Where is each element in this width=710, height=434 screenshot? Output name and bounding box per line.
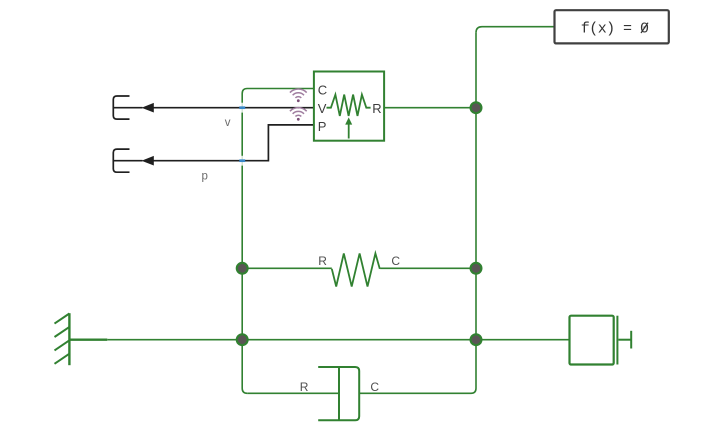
faint green ghost at crossing v [241, 103, 243, 113]
signal wire p: sensor P port left, down, to terminator arrow [154, 125, 315, 161]
damper port label C [370, 380, 379, 394]
sensor internal potentiometer zigzag [327, 95, 371, 116]
slash through zero of solver block [641, 23, 648, 33]
mass block stub and end tick [619, 331, 632, 349]
mass block body [570, 316, 614, 365]
wifi badge on V signal [290, 108, 307, 117]
spring port label C [391, 254, 400, 268]
spring port label R [318, 254, 327, 268]
svg-text:C: C [318, 82, 327, 97]
mechanical reference ground bar [68, 313, 70, 365]
junction dot: spring left / left bus [237, 263, 248, 274]
solver block text f(x) = 0 [581, 21, 649, 38]
sensor internal wiper arrow [348, 124, 350, 139]
junction dot: mass row / left bus [237, 334, 248, 345]
arrowhead on v signal [142, 103, 154, 113]
faint green ghost at crossing p [241, 156, 243, 166]
damper piston bar [338, 367, 340, 420]
svg-text:R: R [372, 101, 381, 116]
sensor port label V [318, 101, 327, 116]
wifi badge dot on C connection [297, 99, 300, 102]
sensor port label C [318, 82, 327, 97]
svg-text:p: p [202, 170, 208, 182]
wire: spring row left segment [242, 267, 332, 269]
spring element zigzag [332, 253, 380, 286]
junction dot: mass row / right bus [471, 334, 482, 345]
svg-text:C: C [370, 380, 379, 394]
wire: spring row right segment [380, 267, 476, 269]
sensor port label P [318, 119, 327, 134]
svg-text:R: R [318, 254, 327, 268]
svg-text:C: C [391, 254, 400, 268]
arrowhead on p signal [142, 156, 154, 166]
wire: damper row bottom horizontal left [247, 392, 339, 394]
wifi badge on C connection [290, 89, 307, 98]
wire: top horizontal from right vertical to solver block [476, 27, 555, 33]
ground hatch strokes [55, 314, 70, 364]
solver configuration block f(x)=0 [555, 10, 669, 43]
wifi badge dot on V signal [297, 118, 300, 121]
wire: mass row horizontal (ground to mass) [107, 339, 569, 341]
svg-text:P: P [318, 119, 327, 134]
sensor port label R [372, 101, 381, 116]
translational motion sensor block body [314, 72, 384, 141]
wire: sensor R port to right bus [384, 107, 476, 109]
signal wire v: sensor V port to terminator arrow [154, 107, 315, 109]
terminator E symbol (p output) [113, 149, 142, 172]
wire: right vertical bus [471, 33, 476, 394]
junction dot: sensor R / right bus [471, 102, 482, 113]
blue crossing tick on v signal over left bus [239, 106, 245, 109]
svg-text:v: v [225, 117, 231, 129]
label p [202, 170, 208, 182]
terminator E symbol (v output) [113, 96, 142, 119]
label v [225, 117, 231, 129]
wire: damper row bottom horizontal right [359, 392, 471, 394]
svg-text:R: R [300, 380, 309, 394]
damper cylinder [318, 367, 359, 420]
junction dot: spring right / right bus [471, 263, 482, 274]
mass block right plate line [616, 316, 618, 365]
damper port label R [300, 380, 309, 394]
wire: left vertical bus (from sensor C port down to damper) [242, 89, 314, 394]
blue crossing tick on p signal over left bus [239, 159, 245, 162]
svg-text:f(x) = 0: f(x) = 0 [581, 21, 649, 38]
ground port stub [69, 339, 107, 341]
svg-text:V: V [318, 101, 327, 116]
